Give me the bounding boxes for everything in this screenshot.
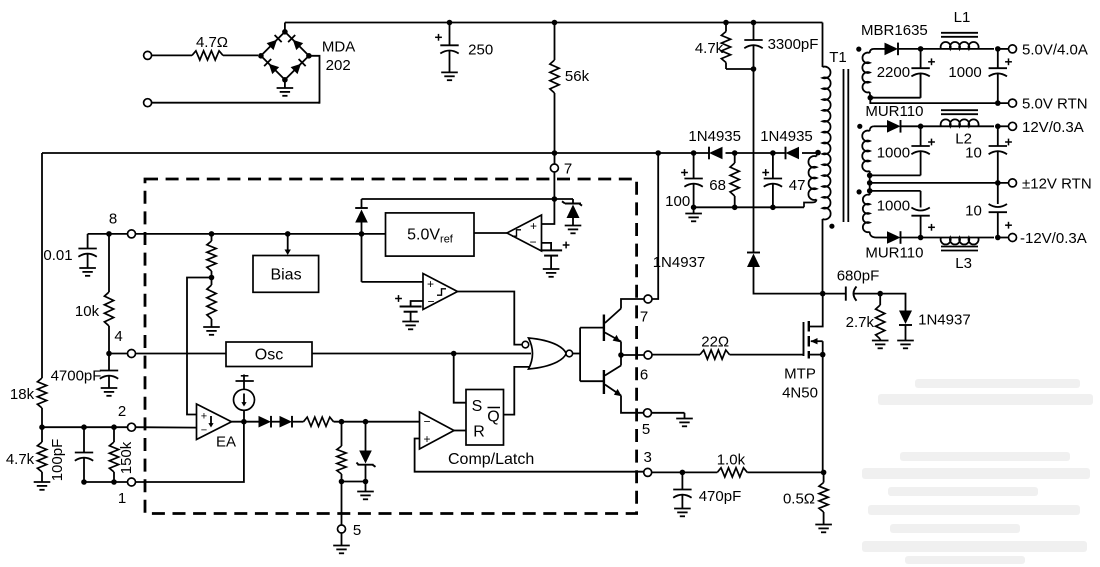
bridge rectifier MDA202 (258, 29, 312, 83)
svg-text:8: 8 (109, 211, 117, 228)
svg-text:+: + (530, 219, 537, 233)
svg-text:470pF: 470pF (699, 488, 742, 505)
node sec2 at 10uF (995, 124, 1001, 130)
wire 5V RTN rail (870, 98, 1008, 103)
IC UC3842 dashed box (145, 179, 637, 514)
svg-text:202: 202 (326, 57, 351, 74)
output 5.0V RTN (1009, 96, 1088, 113)
zener comp clamp (357, 422, 376, 482)
svg-text:MDA: MDA (322, 39, 355, 56)
node sec3 at 10uF (995, 235, 1001, 241)
secondary3 polarity dot (857, 189, 862, 194)
gate NOR output (522, 338, 572, 369)
wire pin5 bottom riser (341, 482, 343, 526)
resistor 1.0k (717, 452, 748, 478)
capacitor 10uF 12V (965, 126, 1012, 183)
bias feed arrow (285, 234, 291, 255)
transformer aux winding (804, 153, 818, 207)
node 0.01 wire (106, 231, 112, 237)
resistor divider lower (203, 278, 220, 335)
capacitor 4700pF (51, 354, 119, 396)
capacitor 1000uF -12V (877, 198, 935, 238)
transistor MTP4N50 mosfet (782, 294, 823, 402)
svg-text:2.7k: 2.7k (846, 314, 875, 331)
wire pin7 riser right (652, 153, 658, 299)
op-amp UVLO1 (507, 215, 542, 251)
bridge right loop wire (309, 56, 320, 103)
node sec2 after diode (901, 124, 995, 130)
resistor EA out (304, 417, 334, 426)
node pin4 (106, 351, 112, 357)
wire pin8 bus (136, 233, 386, 235)
wire pin1 row (84, 481, 128, 483)
node divider top (209, 231, 215, 237)
resistor 2.7k (846, 294, 889, 349)
svg-text:4.7k: 4.7k (695, 40, 724, 57)
capacitor 47uF vcc (762, 153, 805, 207)
resistor 4.7ohm input (192, 34, 228, 60)
pin 4 (114, 328, 135, 358)
bridge ground (277, 80, 294, 96)
output +-12V RTN (1009, 175, 1092, 192)
svg-text:0.01: 0.01 (43, 247, 72, 264)
node 150k bottom (111, 479, 117, 485)
op-amp UVLO2 (423, 274, 458, 310)
svg-text:680pF: 680pF (837, 267, 880, 284)
svg-text:10k: 10k (75, 303, 100, 320)
node comp rc 2 (363, 419, 369, 425)
resistor 18k (10, 378, 47, 427)
svg-text:1000: 1000 (948, 64, 981, 81)
svg-text:Comp/Latch: Comp/Latch (448, 451, 534, 468)
wire sec3 rail (901, 237, 995, 239)
wire sec1 bottom to 2200 (870, 73, 920, 98)
node clamp bottom (751, 66, 757, 72)
svg-text:−: − (427, 295, 434, 309)
node drain (820, 291, 826, 297)
transformer secondary -12V winding (863, 195, 876, 238)
current source (234, 389, 255, 421)
resistor divider upper (207, 234, 216, 278)
diode vref left (355, 199, 368, 234)
svg-text:250: 250 (468, 42, 493, 59)
wire snubber to drain (754, 267, 823, 294)
node 18k 4.7k (39, 424, 45, 430)
wire osc out (312, 353, 531, 355)
current source supply (236, 375, 254, 390)
wire resistor to bridge (223, 54, 258, 56)
svg-text:Bias: Bias (270, 267, 301, 284)
node vcc gnd rail 100uF (685, 205, 702, 222)
wire sec3 to diode (876, 237, 887, 239)
svg-text:MUR110: MUR110 (865, 103, 923, 120)
node vcc at 68 (732, 150, 738, 156)
wire +-12V RTN rail (870, 182, 1009, 184)
wire totem bases (580, 328, 603, 382)
wire latch Q to gate (504, 367, 530, 415)
svg-text:56k: 56k (565, 68, 590, 85)
diode 1N4937 snubber (653, 253, 760, 272)
svg-text:±12V RTN: ±12V RTN (1022, 175, 1092, 192)
svg-text:2200: 2200 (877, 64, 910, 81)
node EA output (241, 419, 247, 425)
secondary1 polarity dot (856, 47, 861, 52)
node vref input (359, 231, 365, 237)
node divider mid (209, 275, 215, 281)
svg-text:1000: 1000 (877, 198, 910, 215)
wire pin6 to 22ohm (652, 354, 700, 356)
wire top bus to primary (822, 23, 824, 68)
wire divider to EA+ (187, 278, 212, 415)
capacitor 3300pF clamp (744, 23, 818, 70)
node RTN rail at 10uF (995, 180, 1001, 186)
svg-text:6: 6 (640, 367, 648, 384)
wire source down (822, 355, 824, 473)
diode EA out 2 (280, 416, 304, 428)
node clamp bottom 2 (363, 479, 369, 485)
node sense (821, 470, 827, 476)
wire vcc rail (42, 152, 709, 154)
svg-text:1N4935: 1N4935 (760, 128, 813, 145)
svg-text:4: 4 (114, 328, 122, 345)
battery UVLO2 ref (395, 295, 422, 329)
svg-text:L3: L3 (955, 255, 972, 272)
node top bus at 4.7k (723, 20, 729, 26)
svg-text:−: − (529, 235, 536, 249)
wire vcc to pin7 top (554, 153, 556, 164)
svg-text:Q: Q (487, 409, 499, 426)
wire pin5 to gnd (652, 413, 693, 427)
wire UVLO2 out (458, 292, 523, 345)
node 100pF top (81, 424, 87, 430)
wire left rail (41, 153, 43, 378)
pin 7 top (550, 161, 572, 178)
svg-text:MBR1635: MBR1635 (861, 22, 928, 39)
wire sec2 top to diode (874, 125, 887, 127)
svg-text:−: − (423, 415, 430, 429)
svg-text:22Ω: 22Ω (701, 334, 729, 351)
wire vref node down (361, 234, 363, 282)
svg-text:0.5Ω: 0.5Ω (783, 491, 815, 508)
svg-text:-12V/0.3A: -12V/0.3A (1020, 230, 1087, 247)
zener diode vref right (562, 199, 582, 233)
svg-text:MUR110: MUR110 (865, 245, 923, 262)
op-amp Comp/Latch (420, 412, 535, 468)
svg-text:12V/0.3A: 12V/0.3A (1022, 119, 1084, 136)
center tap node 2 (867, 180, 873, 186)
node vcc at 47 (770, 150, 776, 156)
wire EA out (232, 421, 259, 423)
svg-text:7: 7 (640, 309, 648, 326)
resistor 150k (109, 427, 135, 482)
wire vcc gnd rail (694, 206, 804, 208)
wire pin7 top down (553, 172, 555, 199)
AC input terminal bottom (144, 99, 320, 107)
resistor 68 (709, 153, 739, 207)
svg-text:S: S (472, 398, 483, 415)
wire pin4 left (109, 353, 128, 355)
svg-text:+: + (427, 277, 434, 291)
transistor Q1 npn (604, 299, 644, 355)
wire gate (730, 354, 804, 356)
wire pin3 row (652, 471, 718, 473)
svg-text:10: 10 (965, 203, 982, 220)
node vcc at pin7 riser (655, 150, 661, 156)
svg-text:4.7Ω: 4.7Ω (196, 34, 228, 51)
pin 3 (644, 449, 652, 476)
AC input terminal top (144, 51, 192, 59)
diode 1N4935 left (688, 128, 741, 159)
wire to right 1N4937 (880, 294, 905, 311)
node 150k top (111, 424, 117, 430)
svg-text:4N50: 4N50 (782, 384, 818, 401)
capacitor 1000uF 5V (948, 49, 1011, 103)
wire vcc rail right (802, 152, 816, 154)
block 5.0Vref (386, 213, 475, 256)
wire vcc rail mid (726, 152, 786, 154)
wire to comp minus (334, 421, 420, 423)
node top bus at 3300pF (751, 20, 757, 26)
diode MUR110 bottom (865, 231, 923, 261)
svg-text:T1: T1 (829, 49, 847, 66)
svg-text:EA: EA (216, 434, 236, 451)
svg-text:5.0V RTN: 5.0V RTN (1022, 96, 1088, 113)
primary polarity dot (829, 224, 834, 229)
wire UVLO2 minus (411, 301, 423, 307)
block Osc (226, 342, 312, 367)
ground pin5 bottom (333, 533, 350, 553)
capacitor 250uF bulk (435, 23, 493, 81)
capacitor 100pF (49, 427, 93, 482)
diode 1N4935 right (760, 128, 813, 159)
capacitor 1000uF 12V (877, 126, 935, 175)
wire UVLO1 plus (542, 199, 555, 224)
svg-text:2: 2 (118, 403, 126, 420)
resistor 4.7k lower (6, 427, 50, 490)
svg-text:5: 5 (642, 421, 650, 438)
wire gate out (573, 353, 581, 355)
svg-text:1N4937: 1N4937 (918, 312, 971, 329)
svg-text:1N4937: 1N4937 (653, 254, 706, 271)
svg-text:5: 5 (353, 522, 361, 539)
faint watermark text remnants (862, 379, 1093, 564)
aux winding polarity dot (817, 152, 819, 154)
wire 1.0k to source node (747, 471, 823, 473)
svg-text:100: 100 (665, 193, 690, 210)
svg-text:1: 1 (118, 490, 126, 507)
node osc clock (451, 351, 457, 357)
inductor L3 (941, 238, 979, 273)
wire UVLO1 minus (542, 243, 552, 251)
capacitor 0.01 vcc (43, 234, 96, 276)
center tap node 1 (867, 173, 921, 179)
transistor Q2 npn (604, 355, 644, 413)
wire UVLO1 out to vref (474, 232, 507, 234)
pin 6 (640, 351, 652, 384)
wire pin4 to osc (136, 353, 227, 355)
node source (820, 352, 826, 358)
svg-text:+: + (201, 411, 207, 423)
capacitor 10uF -12V (965, 183, 1012, 238)
pin 1 (118, 478, 136, 507)
bridge top stub wire (284, 23, 286, 32)
secondary2 polarity dot (857, 124, 862, 129)
wire pin1 feedback (136, 422, 244, 482)
wire tap to 1000uF neg (870, 191, 921, 208)
inductor L1 (941, 9, 979, 49)
capacitor 470pF (673, 472, 741, 516)
wire pin8 bus left (88, 233, 128, 235)
op-amp EA (197, 404, 237, 451)
svg-text:100pF: 100pF (49, 439, 66, 482)
svg-text:18k: 18k (10, 386, 35, 403)
wire clamp down (753, 69, 755, 253)
diode 1N4937 right (897, 311, 970, 349)
node top bus at 250uF (447, 20, 453, 26)
resistor 22ohm gate (700, 334, 730, 360)
svg-text:3300pF: 3300pF (768, 36, 819, 53)
node comp rc 1 (339, 419, 345, 425)
node gnd rail 68 (732, 205, 738, 211)
wire osc to latch S (454, 354, 466, 403)
transformer primary winding (823, 67, 831, 220)
node vcc at aux winding (815, 150, 821, 156)
svg-text:−: − (201, 425, 207, 437)
svg-text:1N4935: 1N4935 (688, 128, 741, 145)
svg-text:4700pF: 4700pF (51, 368, 102, 385)
wire totem to pin6 (621, 354, 644, 356)
pin 8 (109, 211, 136, 238)
svg-text:68: 68 (709, 177, 726, 194)
pin 5 bottom (338, 522, 362, 539)
wire pin2 to EA (136, 426, 197, 428)
resistor 10k (75, 234, 114, 354)
capacitor 2200uF (877, 49, 935, 98)
transformer secondary 5V winding (862, 49, 874, 98)
battery UVLO1 ref (540, 242, 569, 277)
svg-text:7: 7 (564, 161, 572, 178)
node sec1 bottom (868, 95, 874, 101)
resistor comp pulldown (337, 422, 346, 482)
output -12V/0.3A (998, 230, 1087, 247)
svg-text:R: R (473, 424, 485, 441)
wire vref to UVLO2 plus (362, 281, 424, 283)
node 680pF to 2.7k (877, 291, 883, 297)
svg-text:150k: 150k (118, 441, 135, 474)
svg-text:1.0k: 1.0k (717, 452, 746, 469)
diode MUR110 top (865, 103, 923, 133)
label T1 (829, 49, 847, 66)
resistor 0.5ohm sense (783, 472, 832, 532)
svg-text:Osc: Osc (255, 347, 283, 364)
svg-text:5.0V/4.0A: 5.0V/4.0A (1022, 42, 1088, 59)
node sec1 at 1000uF (995, 46, 1001, 52)
svg-text:+: + (423, 432, 430, 446)
capacitor 100uF vcc (665, 153, 703, 210)
svg-text:L1: L1 (954, 9, 971, 26)
svg-text:47: 47 (789, 177, 806, 194)
output 12V/0.3A (998, 119, 1084, 136)
ground zener comp (357, 482, 374, 500)
wire pin2 row (42, 426, 128, 428)
wire comp plus feedback (415, 439, 644, 472)
center tap node 3 (867, 175, 873, 195)
transformer secondary 12V winding (862, 126, 874, 175)
label MDA 202 (322, 39, 355, 75)
diode EA out 1 (259, 416, 280, 428)
wire comp out (454, 430, 466, 432)
inductor L2 (941, 110, 979, 147)
resistor 4.7k clamp (695, 23, 754, 70)
capacitor 680pF (823, 267, 881, 300)
node totem emitters (618, 352, 624, 358)
transformer core (844, 69, 849, 222)
node vcc at 56k (552, 150, 558, 156)
svg-text:10: 10 (965, 145, 982, 162)
node vcc at 100uF (691, 150, 697, 156)
wire clamp bottoms (342, 481, 366, 483)
wire vref supply rail (362, 198, 574, 200)
node RTN at 1000uF (995, 100, 1001, 106)
node sec3 cap bottom (918, 235, 924, 241)
resistor 56k (550, 23, 590, 154)
diode MBR1635 (861, 22, 928, 55)
wire top bus (285, 22, 823, 24)
node top bus at 56k (552, 20, 558, 26)
svg-text:3: 3 (644, 449, 652, 466)
node vref supply (552, 196, 558, 202)
node sec1 after diode (898, 46, 994, 52)
svg-text:1000: 1000 (877, 145, 910, 162)
pin 5 right (642, 409, 652, 438)
node clamp bottom 1 (339, 479, 345, 485)
node 470pF (680, 470, 686, 476)
node bias arrow (285, 231, 291, 237)
node gnd rail 47 (770, 205, 776, 211)
block Bias (253, 256, 319, 293)
pin 7 right (640, 295, 652, 326)
output 5.0V/4.0A (998, 42, 1088, 59)
latch S-R (466, 390, 504, 446)
node 100pF bottom (81, 479, 87, 485)
wire primary to drain node (822, 219, 824, 294)
wire sec1 top to diode (874, 48, 885, 50)
pin 2 (118, 403, 136, 431)
svg-text:MTP: MTP (784, 365, 816, 382)
svg-text:4.7k: 4.7k (6, 451, 35, 468)
